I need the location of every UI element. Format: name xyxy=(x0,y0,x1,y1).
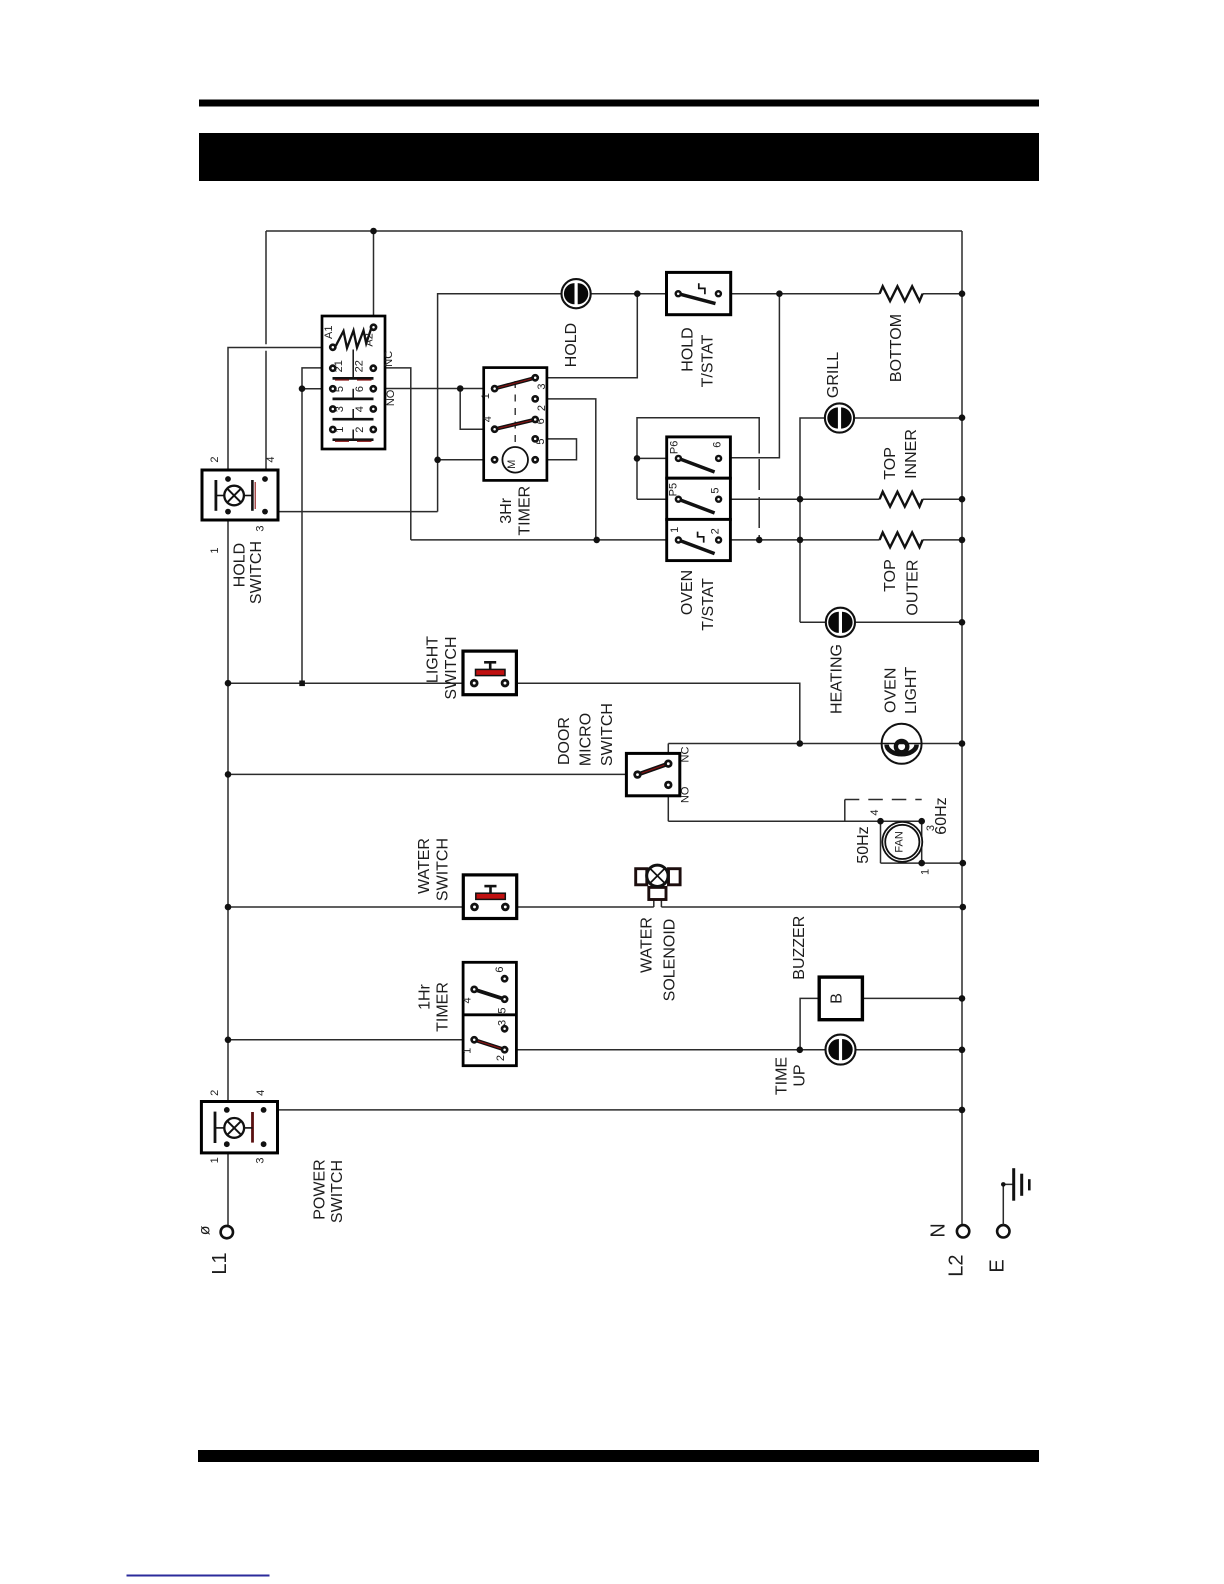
svg-text:L2: L2 xyxy=(945,1254,967,1276)
junction pole1 node c xyxy=(797,537,804,544)
svg-text:A1: A1 xyxy=(323,325,335,338)
svg-text:3: 3 xyxy=(255,1157,267,1163)
relay coil and contacts xyxy=(322,316,385,449)
resistor TOP INNER element xyxy=(880,492,923,507)
svg-text:NO: NO xyxy=(679,786,691,803)
wire relay coil A2 riser xyxy=(373,231,375,327)
wire hold switch terminal 3 riser to hold lamp xyxy=(265,294,562,512)
junction bus power xyxy=(959,1107,966,1114)
footer link underline xyxy=(127,1575,270,1577)
svg-text:TIMER: TIMER xyxy=(517,486,534,536)
svg-text:SWITCH: SWITCH xyxy=(248,541,265,604)
junction bus micro xyxy=(225,771,232,778)
switch LIGHT SWITCH xyxy=(463,651,516,695)
wire fan frame xyxy=(881,821,963,863)
svg-text:SWITCH: SWITCH xyxy=(599,703,616,766)
svg-text:3: 3 xyxy=(497,1020,509,1026)
wire top outer element row xyxy=(411,539,962,541)
junction light feed node (square) xyxy=(299,681,305,687)
junction bus bottom element xyxy=(959,290,966,297)
motor FAN xyxy=(882,822,922,862)
svg-text:6: 6 xyxy=(354,386,366,392)
wire 1hr timer feed row xyxy=(228,1039,474,1041)
svg-text:T/STAT: T/STAT xyxy=(700,578,717,631)
wire water switch row xyxy=(228,906,963,908)
svg-text:TIMER: TIMER xyxy=(435,982,452,1032)
svg-text:SWITCH: SWITCH xyxy=(435,838,452,901)
svg-text:HEATING: HEATING xyxy=(829,644,846,714)
svg-text:E: E xyxy=(986,1259,1008,1272)
junction bus water xyxy=(225,904,232,911)
svg-text:SWITCH: SWITCH xyxy=(329,1160,346,1223)
svg-text:3: 3 xyxy=(334,406,346,412)
svg-text:5: 5 xyxy=(535,438,547,444)
svg-text:HOLD: HOLD xyxy=(232,543,249,587)
junction bus solenoid xyxy=(960,904,967,911)
svg-text:HOLD: HOLD xyxy=(680,327,697,371)
timer 1Hr TIMER xyxy=(463,962,516,1065)
wire door micro NO to fan xyxy=(668,785,921,821)
svg-text:22: 22 xyxy=(353,360,365,372)
svg-text:HOLD: HOLD xyxy=(563,323,580,367)
svg-text:4: 4 xyxy=(869,810,881,816)
svg-text:1: 1 xyxy=(209,547,221,553)
junction fan pin3 xyxy=(918,818,925,825)
svg-text:4: 4 xyxy=(354,406,366,412)
junction fan pin4 xyxy=(877,818,884,825)
svg-text:1: 1 xyxy=(669,527,681,533)
svg-text:1: 1 xyxy=(334,427,346,433)
svg-text:T/STAT: T/STAT xyxy=(699,334,716,387)
svg-text:NC: NC xyxy=(383,351,395,367)
junction timer motor node xyxy=(434,457,441,464)
svg-text:1Hr: 1Hr xyxy=(417,983,434,1009)
svg-text:5: 5 xyxy=(497,1008,509,1014)
wire top inner element row xyxy=(719,498,962,500)
junction pole1 node a xyxy=(593,537,600,544)
junction bus heating xyxy=(959,619,966,626)
svg-text:NC: NC xyxy=(679,747,691,763)
wire right bus L2 rail xyxy=(961,231,963,1225)
terminal L1 xyxy=(221,1226,233,1238)
timer 3Hr TIMER xyxy=(484,368,547,481)
svg-text:2: 2 xyxy=(354,427,366,433)
junction bus oven light xyxy=(959,740,966,747)
terminal N xyxy=(957,1225,969,1237)
thermostat HOLD T/STAT xyxy=(667,272,731,314)
svg-text:60Hz: 60Hz xyxy=(933,797,950,834)
buzzer B xyxy=(819,977,862,1020)
svg-text:WATER: WATER xyxy=(416,838,433,894)
svg-text:BUZZER: BUZZER xyxy=(791,916,808,980)
junction pole1 node b xyxy=(756,537,763,544)
svg-text:UP: UP xyxy=(792,1064,809,1086)
svg-text:6: 6 xyxy=(712,442,724,448)
thermostat OVEN T/STAT xyxy=(667,437,731,561)
junction timer pin1 node xyxy=(457,385,464,392)
svg-text:5: 5 xyxy=(709,488,721,494)
svg-text:POWER: POWER xyxy=(312,1159,329,1219)
wire 3hr timer pins 5-motor loop xyxy=(535,439,576,460)
top rule bar xyxy=(199,100,1039,107)
wire door micro NC to oven light xyxy=(668,744,962,764)
svg-text:OVEN: OVEN xyxy=(882,668,899,713)
svg-text:3: 3 xyxy=(536,383,548,389)
svg-text:6: 6 xyxy=(494,966,506,972)
svg-text:1: 1 xyxy=(480,393,492,399)
wire 3hr timer pin 3 riser xyxy=(535,294,637,378)
svg-text:INNER: INNER xyxy=(903,429,920,479)
wire water solenoid leads xyxy=(654,890,662,907)
wire hold t/stat junction drop to contact 6 xyxy=(719,294,780,458)
wire hold lamp to hold t/stat xyxy=(591,293,679,295)
resistor BOTTOM element xyxy=(880,286,923,301)
svg-text:21: 21 xyxy=(333,360,345,372)
svg-text:1: 1 xyxy=(920,869,932,875)
svg-text:1: 1 xyxy=(209,1157,221,1163)
lamp HOLD xyxy=(562,279,591,308)
svg-text:1: 1 xyxy=(461,1048,473,1054)
svg-text:2: 2 xyxy=(536,405,548,411)
wire time up row xyxy=(505,1049,962,1051)
svg-text:LIGHT: LIGHT xyxy=(425,636,442,683)
junction hold lamp node xyxy=(634,290,641,297)
svg-text:BOTTOM: BOTTOM xyxy=(888,314,905,382)
wire relay contact 21 stub xyxy=(302,368,333,389)
svg-text:GRILL: GRILL xyxy=(825,352,842,398)
svg-text:M: M xyxy=(506,460,518,469)
wire oven t/stat feed loop P6 P5 xyxy=(637,418,759,500)
svg-text:TOP: TOP xyxy=(882,447,899,480)
svg-text:3Hr: 3Hr xyxy=(498,497,515,523)
svg-text:P6: P6 xyxy=(668,441,680,454)
junction bus grill xyxy=(959,414,966,421)
wire relay contact 5 to light feed riser xyxy=(302,389,333,684)
wire branch to 3hr timer motor xyxy=(438,459,495,461)
wire power switch terminal 4 row xyxy=(265,1109,962,1111)
switch DOOR MICRO SWITCH xyxy=(626,753,679,795)
wire ganged link dashed xyxy=(758,459,760,540)
svg-text:B: B xyxy=(829,993,846,1004)
resistor TOP OUTER element xyxy=(880,533,923,548)
wire grill lamp branch xyxy=(800,418,962,622)
wire left bus L1 rail xyxy=(227,512,229,1226)
svg-text:L1: L1 xyxy=(209,1252,231,1274)
junction fan pin1 xyxy=(918,860,925,867)
svg-text:OUTER: OUTER xyxy=(904,560,921,616)
wire top feed L1 rail xyxy=(266,230,962,232)
switch WATER SWITCH xyxy=(463,875,516,919)
lamp TIME UP xyxy=(826,1035,856,1065)
junction bus top outer xyxy=(959,537,966,544)
svg-text:4: 4 xyxy=(255,1090,267,1096)
svg-text:WATER: WATER xyxy=(638,917,655,973)
lamp OVEN LIGHT xyxy=(882,724,922,764)
svg-text:2: 2 xyxy=(209,457,221,463)
wire door micro common row xyxy=(228,773,638,775)
junction bus top inner xyxy=(959,496,966,503)
junction bus time up xyxy=(959,1047,966,1054)
wire branch to 3hr timer pin 4 xyxy=(460,389,494,430)
wire fan 50Hz dashed tap xyxy=(844,800,846,822)
wire heating lamp row xyxy=(800,621,962,623)
wire relay contact 22 to oven t/stat pole 1 xyxy=(373,368,411,540)
solenoid WATER SOLENOID xyxy=(636,865,680,899)
svg-text:2: 2 xyxy=(709,528,721,534)
svg-text:A2: A2 xyxy=(363,333,375,346)
svg-text:ø: ø xyxy=(197,1225,214,1235)
svg-text:6: 6 xyxy=(535,418,547,424)
wire 3hr timer pin 2 drop to oven t/stat pole 1 row xyxy=(535,399,596,540)
junction bus fan xyxy=(960,860,967,867)
wire buzzer leads xyxy=(800,998,962,1049)
wire light switch row xyxy=(228,683,800,743)
svg-text:4: 4 xyxy=(482,416,494,422)
lamp HEATING xyxy=(826,608,855,637)
wire earth lead xyxy=(1003,1184,1012,1225)
svg-text:N: N xyxy=(928,1223,950,1237)
svg-text:MICRO: MICRO xyxy=(578,713,595,766)
wire relay contact 6 to 3hr timer pin 1 xyxy=(373,388,494,390)
lamp GRILL xyxy=(825,403,854,432)
junction top inner node xyxy=(797,496,804,503)
junction P6 node xyxy=(634,455,641,462)
svg-text:LIGHT: LIGHT xyxy=(903,667,920,714)
junction time up node xyxy=(797,1047,804,1054)
svg-text:3: 3 xyxy=(255,525,267,531)
junction bottom row node xyxy=(776,290,783,297)
switch HOLD SWITCH xyxy=(202,470,278,520)
switch POWER SWITCH xyxy=(201,1102,277,1153)
terminal E xyxy=(997,1225,1009,1237)
svg-text:OVEN: OVEN xyxy=(679,570,696,615)
title band xyxy=(199,133,1039,181)
svg-text:TIME: TIME xyxy=(773,1057,790,1095)
svg-text:DOOR: DOOR xyxy=(556,717,573,765)
junction bus 1hr timer xyxy=(225,1037,232,1044)
junction bus buzzer xyxy=(959,995,966,1002)
wire hold switch terminal 4 riser xyxy=(265,231,267,479)
svg-text:5: 5 xyxy=(334,386,346,392)
svg-text:2: 2 xyxy=(209,1090,221,1096)
svg-text:FAN: FAN xyxy=(893,831,905,852)
wire hold t/stat to bottom element xyxy=(718,293,962,295)
wire hold switch terminal 2 to relay A1 xyxy=(228,348,333,480)
junction A2 riser xyxy=(370,228,377,235)
svg-text:SWITCH: SWITCH xyxy=(443,636,460,699)
svg-text:2: 2 xyxy=(495,1055,507,1061)
svg-text:4: 4 xyxy=(265,457,277,463)
svg-text:NO: NO xyxy=(385,389,397,406)
ground symbol xyxy=(1014,1168,1030,1201)
bottom rule bar xyxy=(198,1450,1039,1462)
junction relay 5 node xyxy=(299,385,306,392)
svg-text:TOP: TOP xyxy=(882,559,899,592)
junction bus light xyxy=(225,680,232,687)
svg-text:SOLENOID: SOLENOID xyxy=(662,919,679,1002)
svg-text:4: 4 xyxy=(461,997,473,1003)
svg-text:50Hz: 50Hz xyxy=(855,826,872,863)
junction oven light node xyxy=(797,740,804,747)
svg-text:P5: P5 xyxy=(668,483,680,496)
